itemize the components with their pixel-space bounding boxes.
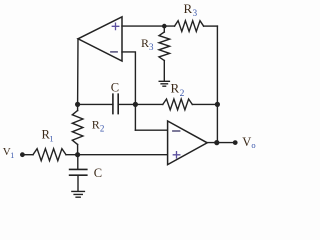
node right-rail R2 junction dot xyxy=(215,102,220,107)
ground (under R3) xyxy=(159,81,169,86)
wire node B to U2 - input xyxy=(135,129,167,131)
svg-text:V: V xyxy=(242,135,251,149)
wire R1 to U2 + input xyxy=(66,154,168,156)
input node junction dot xyxy=(75,152,80,157)
resistor R2 (vertical) xyxy=(72,111,83,145)
wire R3 to right rail xyxy=(204,25,218,27)
resistor R3 (top horizontal) xyxy=(175,21,204,32)
wire node A to resistor R3 vertical xyxy=(163,26,165,32)
svg-text:R: R xyxy=(171,81,180,96)
terminal Vo dot xyxy=(233,140,238,145)
wire R2 to right rail xyxy=(192,103,217,105)
capacitor C (middle, horizontal) xyxy=(113,94,118,113)
label R2 (middle resistor) xyxy=(171,81,185,99)
svg-text:R: R xyxy=(141,36,149,50)
op-amp U1 (left-pointing) xyxy=(78,17,122,61)
label C (bottom capacitor) xyxy=(94,166,102,180)
svg-text:R: R xyxy=(184,1,193,16)
svg-text:1: 1 xyxy=(49,134,53,144)
svg-text:R: R xyxy=(92,117,100,131)
label R3 (top) xyxy=(184,1,198,18)
terminal V1 dot xyxy=(20,152,25,157)
wire right rail vertical xyxy=(216,26,218,143)
wire left node to capacitor C xyxy=(78,103,113,105)
resistor R3 (vertical) xyxy=(159,32,170,61)
wire R2 vertical to input node xyxy=(77,145,79,155)
svg-text:2: 2 xyxy=(180,89,185,99)
label C (middle capacitor) xyxy=(111,81,119,95)
label R1 xyxy=(42,128,54,144)
wire U2 output to Vo xyxy=(207,142,235,144)
op-amp U2 (right-pointing) xyxy=(168,121,208,165)
node output junction dot xyxy=(214,140,219,145)
svg-text:C: C xyxy=(94,166,102,180)
label Vo xyxy=(242,135,255,150)
svg-text:o: o xyxy=(251,140,255,150)
wire V1 to R1 xyxy=(22,154,33,156)
node C-left junction dot xyxy=(75,102,80,107)
svg-text:3: 3 xyxy=(149,42,154,52)
wire U1 - input down to node B xyxy=(122,52,135,130)
ground (bottom) xyxy=(72,191,85,197)
wire input node to capacitor C bottom xyxy=(77,155,79,170)
U2 pin - marker xyxy=(173,130,180,132)
node B junction dot xyxy=(133,102,138,107)
U2 pin + marker xyxy=(173,152,180,158)
resistor R1 xyxy=(33,149,66,161)
U1 pin + marker xyxy=(112,23,119,30)
wire capacitor C to ground xyxy=(77,175,79,191)
label V1 xyxy=(3,146,15,160)
label R2 (vertical resistor) xyxy=(92,117,105,133)
svg-text:C: C xyxy=(111,81,119,95)
svg-text:2: 2 xyxy=(100,124,105,134)
svg-text:1: 1 xyxy=(10,151,14,160)
svg-text:3: 3 xyxy=(193,8,198,18)
wire capacitor C to node B xyxy=(118,103,163,105)
U1 pin - marker xyxy=(111,51,117,53)
wire U1 output down left rail xyxy=(77,39,79,111)
resistor R2 (middle horizontal) xyxy=(163,99,193,110)
wire U1 + input to node A xyxy=(122,25,175,27)
node A junction dot xyxy=(162,24,167,29)
capacitor C (bottom, vertical) xyxy=(70,169,87,175)
label R3 (vertical resistor) xyxy=(141,36,154,52)
wire R3 vertical to ground xyxy=(163,61,165,82)
